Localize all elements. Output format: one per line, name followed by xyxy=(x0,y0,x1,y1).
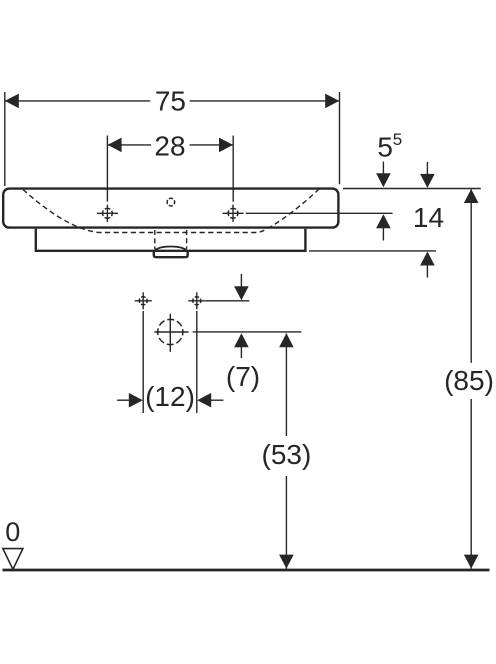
dimension 28 right extension line xyxy=(232,136,234,202)
svg-text:5: 5 xyxy=(393,130,402,149)
drain hole (dashed circle) xyxy=(154,314,188,352)
dimension 14 upper stem xyxy=(426,162,428,176)
dimension 85 line upper part xyxy=(470,189,472,363)
dimension 5.5 lower stem xyxy=(382,227,384,241)
waste outlet dome xyxy=(154,247,187,251)
datum triangle xyxy=(3,549,23,570)
dimension 7 upper arrow xyxy=(234,286,249,300)
dimension 12 right tail xyxy=(210,399,224,401)
dimension 75 left extension line xyxy=(4,92,6,186)
tap hole right xyxy=(223,205,244,222)
basin body outline xyxy=(3,189,338,228)
dimension 7 upper stem xyxy=(240,274,242,288)
overflow hole (dashed circle) xyxy=(167,198,175,206)
apron bottom reference line xyxy=(309,250,436,252)
dimension 7 lower stem xyxy=(240,345,242,358)
svg-text:28: 28 xyxy=(154,131,185,162)
dimension 85 bottom arrow xyxy=(464,555,479,569)
dimension 85 top arrow xyxy=(464,189,479,203)
floor line xyxy=(3,569,490,572)
dimension 12 left vertical line xyxy=(142,311,144,413)
dimension 14 lower stem xyxy=(426,264,428,278)
drain center leader line xyxy=(193,331,302,333)
apron outline xyxy=(36,229,306,251)
svg-text:(53): (53) xyxy=(262,439,312,470)
dimension 28 left arrow xyxy=(108,138,122,153)
dimension 12 left arrow xyxy=(129,393,143,408)
mounting hole left xyxy=(135,292,152,309)
dimension 53 bottom arrow xyxy=(279,555,294,569)
dimension 5.5 upper stem xyxy=(382,162,384,176)
dimension 5.5 lower arrow xyxy=(376,214,391,228)
dimension 14 upper arrow xyxy=(420,174,435,188)
mounting hole leader line xyxy=(206,300,250,302)
dimension 28 right arrow xyxy=(219,138,233,153)
mounting hole right xyxy=(188,292,205,309)
dimension 5.5 upper arrow xyxy=(376,173,391,187)
dimension 28 left extension line xyxy=(106,136,108,202)
svg-text:(12): (12) xyxy=(145,381,195,412)
dimension 7 lower arrow xyxy=(234,333,249,347)
dimension 14 lower arrow xyxy=(420,252,435,266)
dimension 75 right extension line xyxy=(339,92,341,184)
tap hole leader line xyxy=(246,212,393,214)
basin bowl hidden edge (dashed) xyxy=(23,189,319,233)
svg-text:75: 75 xyxy=(155,86,186,117)
rim top reference line xyxy=(343,188,481,190)
dimension 53 top arrow xyxy=(279,333,294,347)
dimension 85 line lower part xyxy=(470,399,472,569)
svg-text:14: 14 xyxy=(413,202,444,233)
dimension 53 line upper part xyxy=(285,334,287,437)
svg-text:(7): (7) xyxy=(226,361,260,392)
waste outlet collar xyxy=(154,252,188,258)
dimension 12 right arrow xyxy=(197,393,211,408)
dimension 12 right vertical line xyxy=(196,311,198,413)
svg-text:0: 0 xyxy=(5,517,20,547)
dimension 28 line xyxy=(108,144,233,146)
tap hole left xyxy=(97,205,118,222)
dimension 12 left tail xyxy=(117,399,130,401)
svg-text:(85): (85) xyxy=(444,365,494,396)
waste outlet dashed sides xyxy=(154,230,156,249)
dimension 75 right arrow xyxy=(325,94,339,109)
dimension 75 line xyxy=(5,100,340,102)
dimension 75 left arrow xyxy=(5,94,19,109)
dimension 53 line lower part xyxy=(285,476,287,569)
svg-text:5: 5 xyxy=(377,132,393,163)
